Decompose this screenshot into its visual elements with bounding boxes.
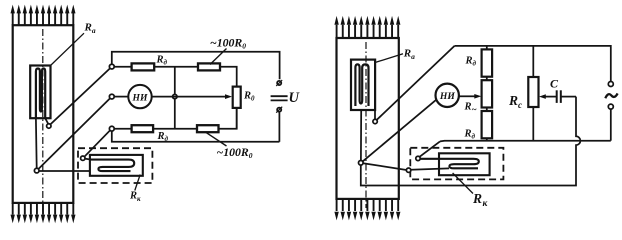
- top rail wire: [112, 52, 280, 79]
- wire node to Rk terminal: [363, 163, 406, 170]
- bottom wire node to C branch: [361, 97, 581, 186]
- row4 wire: [153, 128, 197, 130]
- row4 wire to pot: [219, 108, 237, 129]
- pot bottom lead: [236, 108, 238, 129]
- junction circle middle: [173, 94, 177, 98]
- top force arrows (right specimen): [334, 16, 338, 38]
- centerline (right specimen): [365, 42, 367, 208]
- wire C to branch: [561, 96, 576, 98]
- chain wire 1: [486, 77, 488, 81]
- bottom force arrows (right specimen): [334, 199, 338, 221]
- Ra right lead terminal: [373, 119, 377, 123]
- wire Ra terminal to bridge T1: [51, 68, 111, 124]
- AC terminal bottom: [608, 104, 613, 109]
- bottom rail (right) with hop: [440, 140, 611, 143]
- battery terminal top: [277, 81, 281, 85]
- resistor Rd top (right): [482, 49, 493, 76]
- svg-text:U: U: [289, 90, 301, 106]
- bottom rail wire: [112, 131, 280, 142]
- Ra grid serpentine (right): [355, 64, 368, 106]
- Rk gauge rect (left): [90, 155, 143, 176]
- wire Rk terminal to bridge T3: [84, 130, 110, 157]
- Rk grid serpentine: [91, 160, 134, 172]
- Rc wiper arrow from C: [545, 96, 557, 98]
- svg-text:НИ: НИ: [132, 92, 148, 103]
- svg-text:НИ: НИ: [439, 91, 455, 102]
- potentiometer R0: [233, 87, 241, 108]
- Rc top lead: [532, 46, 534, 77]
- resistor 100R0 bottom: [197, 125, 219, 132]
- svg-text:C: C: [550, 76, 559, 90]
- Rk label leader (right): [453, 173, 473, 194]
- Rk grid serpentine (right): [420, 159, 479, 169]
- potentiometer R~: [482, 80, 493, 107]
- node (common point): [34, 168, 39, 173]
- wire Ra terminal to top rail: [377, 46, 455, 120]
- resistor Rd top: [132, 63, 155, 70]
- null indicator NI circle: [128, 85, 151, 108]
- null indicator NI circle (right): [436, 84, 459, 107]
- row2 wire Rd to junction: [154, 66, 198, 68]
- Ra label leader (right): [375, 54, 403, 63]
- terminal T1: [109, 64, 114, 69]
- centerline (left specimen): [42, 29, 44, 212]
- top rail (right): [455, 46, 611, 82]
- AC tilde: [605, 93, 617, 98]
- resistor Rc: [528, 77, 538, 107]
- resistor Rd bottom (right): [482, 111, 493, 138]
- leader 100R0 top: [210, 49, 227, 65]
- battery bars (DC source): [271, 95, 288, 97]
- terminal T3: [109, 126, 114, 131]
- Ra label leader: [51, 33, 85, 65]
- strain gauge Ra (right): [351, 60, 375, 110]
- NI wiper arrow to R~: [459, 95, 475, 97]
- Ra right lead wire: [374, 110, 376, 119]
- resistor Rd bottom: [132, 125, 154, 132]
- wire NI to junction to pot wiper: [152, 96, 226, 98]
- top force arrows (left specimen): [11, 5, 15, 26]
- Ra grid serpentine: [36, 69, 45, 119]
- resistor 100R0 top: [198, 63, 220, 70]
- Rk terminal circle 2: [406, 168, 410, 172]
- battery terminal bottom: [277, 108, 281, 112]
- resistor chain top lead: [486, 46, 488, 50]
- wire Rk terminal2 to grid: [411, 168, 449, 169]
- Rk terminal circle 1: [416, 156, 420, 160]
- chain wire 2: [486, 108, 488, 112]
- strain gauge Ra (left): [30, 66, 50, 119]
- wire node to Rk gauge: [39, 170, 91, 172]
- capacitor C plates: [556, 90, 558, 103]
- wiper arrowhead at pot: [225, 94, 232, 99]
- dashed box around Rk: [78, 148, 152, 183]
- Rk terminal circle: [81, 156, 85, 160]
- row2 wire T1 to Rd: [114, 66, 131, 68]
- Rc bottom lead: [532, 107, 534, 141]
- leader 100R0 bottom: [206, 132, 227, 146]
- battery lower wire: [278, 112, 280, 141]
- terminal T2: [109, 94, 114, 99]
- svg-text:~100R0: ~100R0: [217, 145, 253, 160]
- center vertical wire: [174, 67, 176, 129]
- middle wire T2 to NI: [114, 96, 128, 98]
- chain bottom lead: [486, 138, 488, 140]
- Ra lead wire right to terminal: [45, 118, 48, 124]
- dashed box around Rk (right): [410, 148, 503, 180]
- Ra lead wire left to node: [35, 118, 38, 168]
- AC lower wire: [610, 109, 612, 141]
- Rk label leader: [135, 175, 140, 191]
- specimen beam (right): [337, 38, 399, 199]
- row2 wire to pot: [220, 67, 237, 87]
- bottom force arrows (left specimen): [11, 203, 15, 223]
- specimen beam (left): [13, 25, 74, 203]
- wire node to bridge T2: [38, 98, 110, 169]
- wire Rk terminal1 to bottom rail: [420, 141, 440, 156]
- Ra left lead wire to node: [360, 110, 362, 161]
- svg-text:~100R0: ~100R0: [210, 35, 246, 50]
- Ra lead terminal circle: [47, 124, 51, 128]
- AC terminal top: [608, 82, 613, 87]
- row4 wire T3 to Rd: [114, 128, 131, 130]
- wire node to NI: [363, 100, 437, 162]
- Rk gauge rect (right): [439, 153, 490, 175]
- node (right): [359, 161, 364, 166]
